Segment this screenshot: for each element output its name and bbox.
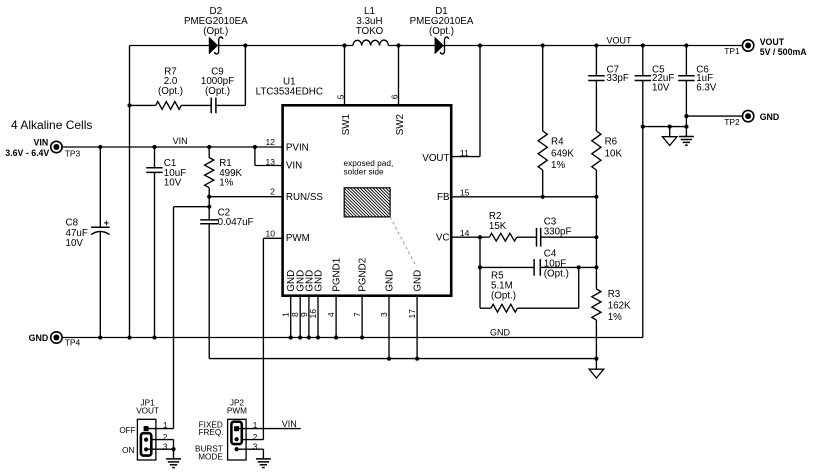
pin JP2-3 <box>235 447 239 451</box>
jumper JP1 shunt <box>141 433 151 455</box>
wire left GND rail vertical <box>129 46 131 338</box>
wire C8 branch <box>99 147 101 338</box>
node rail-C6 junction <box>684 43 688 47</box>
svg-text:FB: FB <box>437 192 450 203</box>
label JP1 <box>136 398 159 415</box>
wire IC bottom ground pins <box>291 297 417 359</box>
net label VOUT <box>607 36 633 46</box>
node R3 ground junction <box>594 357 598 361</box>
wire PVIN stub / pin 13 branch <box>255 147 282 166</box>
svg-text:6.3V: 6.3V <box>696 82 717 93</box>
test point TP4 <box>51 332 62 343</box>
pin name RUN/SS <box>286 192 323 203</box>
svg-text:RUN/SS: RUN/SS <box>286 192 323 203</box>
label R3 <box>608 289 631 323</box>
label R5 <box>491 271 516 302</box>
node VIN-R1 junction <box>207 145 211 149</box>
resistor R2 <box>489 233 517 241</box>
node rail-R4 junction <box>541 43 545 47</box>
svg-text:TOKO: TOKO <box>356 26 384 37</box>
wire R5 row <box>480 267 579 308</box>
svg-text:15: 15 <box>460 188 470 198</box>
svg-text:TP1: TP1 <box>724 46 740 56</box>
svg-text:10V: 10V <box>164 177 182 188</box>
wire SW2 pin 6 <box>398 46 400 105</box>
ground arrow at R3 <box>589 359 604 378</box>
wire JP1 pin3 to ground <box>146 449 173 459</box>
label C8 <box>66 217 88 249</box>
ground earth at JP1 <box>166 459 181 468</box>
capacitor C6 <box>678 76 694 81</box>
test point TP3 <box>51 141 62 152</box>
label TP1 VOUT <box>724 37 807 57</box>
svg-text:0.047uF: 0.047uF <box>218 217 254 228</box>
connector JP1 body <box>137 419 156 460</box>
svg-text:15K: 15K <box>489 221 507 232</box>
wire JP1 pin1 to RUN/SS <box>149 428 174 430</box>
node C4 row right junction <box>594 265 598 269</box>
label L1 <box>356 6 384 37</box>
svg-text:330pF: 330pF <box>544 226 572 237</box>
label OFF <box>119 426 135 435</box>
svg-text:GND: GND <box>490 328 511 338</box>
wire FB pin 15 row <box>452 196 596 198</box>
resistor R4 <box>538 131 547 170</box>
svg-text:10V: 10V <box>652 82 670 93</box>
svg-text:3: 3 <box>253 443 258 452</box>
svg-text:(Opt.): (Opt.) <box>491 291 516 302</box>
svg-text:10K: 10K <box>605 149 623 160</box>
label R4 <box>551 137 574 171</box>
pin number 2 <box>270 186 275 196</box>
svg-text:VIN: VIN <box>34 137 49 147</box>
node JP1 pin3 junction <box>171 447 175 451</box>
resistor R7 <box>156 102 182 110</box>
node agnd pin3 junction <box>387 357 391 361</box>
label C1 <box>164 158 186 188</box>
op-amp U1 LTC3534EDHC box <box>283 105 452 295</box>
svg-text:MODE: MODE <box>198 452 223 461</box>
wire VOUT top rail (SW1 node to TP1) <box>130 45 743 47</box>
pin number 6 <box>389 94 399 99</box>
svg-text:GND: GND <box>413 270 424 292</box>
node bus-C8 junction <box>98 335 102 339</box>
node VC branch junction <box>478 235 482 239</box>
svg-text:1%: 1% <box>551 160 565 171</box>
wire JP2 pin2 <box>242 439 264 441</box>
label BURST MODE <box>195 445 223 462</box>
svg-text:PGND1: PGND1 <box>332 258 343 292</box>
wire R3 bottom lead <box>595 320 597 359</box>
svg-text:1: 1 <box>163 421 168 430</box>
svg-text:13: 13 <box>266 157 276 167</box>
ground arrow at output <box>662 127 677 146</box>
node bus-left rail junction <box>127 335 131 339</box>
pin number 11 <box>460 148 469 158</box>
label TP3 VIN <box>5 137 80 158</box>
label R7 <box>158 66 183 97</box>
wire C4 row <box>480 266 596 268</box>
svg-text:VOUT: VOUT <box>136 406 159 415</box>
pin number 12 <box>266 137 276 147</box>
label D2 <box>184 6 248 37</box>
ground earth at JP2 <box>256 459 271 468</box>
node FB-R4 junction <box>541 195 545 199</box>
dashed leader exposed pad to GND pin <box>390 217 416 266</box>
node ground row C6 junction <box>684 125 688 129</box>
wire VOUT pin 11 riser <box>452 46 480 157</box>
svg-text:SW2: SW2 <box>395 114 406 135</box>
node D1 cathode / VOUT riser junction <box>478 43 482 47</box>
svg-text:2: 2 <box>163 433 168 442</box>
svg-text:TP4: TP4 <box>65 338 81 348</box>
label D1 <box>410 6 474 37</box>
pin name VIN <box>286 160 302 171</box>
svg-text:SW1: SW1 <box>341 114 352 135</box>
capacitor C1 <box>146 168 162 173</box>
pin name FB <box>437 192 450 203</box>
node rail-C5 junction <box>641 43 645 47</box>
svg-text:2: 2 <box>253 433 258 442</box>
label R2 <box>489 211 507 232</box>
label exposed pad text <box>344 158 394 177</box>
wire VIN row <box>62 146 282 148</box>
label ON <box>122 446 134 455</box>
svg-text:PWM: PWM <box>286 233 310 244</box>
node snubber left junction <box>127 103 131 107</box>
node FB-R6 junction <box>594 195 598 199</box>
node RUN/SS junction <box>207 195 211 199</box>
net label VIN <box>173 136 188 146</box>
svg-text:1%: 1% <box>608 312 622 323</box>
label R6 <box>605 137 623 160</box>
pin JP2-1 square <box>234 426 239 431</box>
svg-text:ON: ON <box>122 446 134 455</box>
test point TP1 <box>742 40 753 51</box>
label R1 <box>219 158 242 188</box>
svg-text:5: 5 <box>335 94 345 99</box>
pin number 5 <box>335 94 345 99</box>
svg-text:10V: 10V <box>66 238 84 249</box>
node C4 left junction <box>478 265 482 269</box>
svg-text:VOUT: VOUT <box>607 36 633 46</box>
label TP4 GND <box>29 333 81 348</box>
wire JP2 pin1 VIN <box>239 428 301 430</box>
svg-text:VOUT: VOUT <box>422 153 449 164</box>
svg-text:TP2: TP2 <box>724 117 740 127</box>
svg-text:VIN: VIN <box>286 160 302 171</box>
pin name VC <box>436 233 450 244</box>
wire R1 leads and RUN/SS node <box>209 147 282 220</box>
svg-text:(Opt.): (Opt.) <box>429 26 454 37</box>
pin name PWM <box>286 233 310 244</box>
wire VC to C4/R5 branch <box>479 237 481 308</box>
svg-text:3: 3 <box>163 443 168 452</box>
inductor L1 <box>353 40 389 45</box>
svg-text:GND: GND <box>313 270 324 292</box>
svg-text:17: 17 <box>407 309 417 319</box>
svg-text:162K: 162K <box>608 300 631 311</box>
svg-text:4: 4 <box>326 312 336 317</box>
svg-text:VIN: VIN <box>282 419 297 429</box>
wire C6 column <box>685 46 687 137</box>
svg-text:LTC3534EDHC: LTC3534EDHC <box>256 86 323 97</box>
svg-text:7: 7 <box>352 312 362 317</box>
label C7 <box>607 65 629 85</box>
ground earth at output <box>679 137 694 146</box>
resistor R6 <box>592 131 601 170</box>
svg-text:1: 1 <box>253 421 258 430</box>
wire R4 leads <box>542 46 544 197</box>
svg-text:(Opt.): (Opt.) <box>544 268 569 279</box>
svg-text:3: 3 <box>379 312 389 317</box>
pin names bottom GND/PGND <box>286 258 423 292</box>
svg-text:OFF: OFF <box>119 426 135 435</box>
svg-text:VC: VC <box>436 233 450 244</box>
resistor R1 <box>205 158 214 188</box>
capacitor C3 <box>537 228 541 247</box>
pin name SW1 <box>341 114 352 135</box>
svg-text:GND: GND <box>760 112 780 122</box>
svg-text:1%: 1% <box>219 177 233 188</box>
svg-text:4 Alkaline Cells: 4 Alkaline Cells <box>11 118 92 132</box>
svg-text:VIN: VIN <box>173 136 188 146</box>
svg-text:C8: C8 <box>66 217 79 228</box>
pin JP1-2 <box>144 438 148 442</box>
node C6-TP2 junction <box>684 114 688 118</box>
svg-text:R3: R3 <box>608 289 621 300</box>
node VIN-C1 junction <box>152 145 156 149</box>
svg-text:5V / 500mA: 5V / 500mA <box>760 47 808 57</box>
svg-text:1: 1 <box>281 312 291 317</box>
label C4 <box>544 249 569 280</box>
svg-text:PVIN: PVIN <box>286 142 309 153</box>
node ground row arrow junction <box>668 125 672 129</box>
net label VIN at JP2 <box>282 419 297 429</box>
svg-text:33pF: 33pF <box>607 73 629 84</box>
label C9 <box>201 66 234 97</box>
svg-text:VOUT: VOUT <box>760 37 785 47</box>
node SW2 rail junction <box>396 43 400 47</box>
capacitor C2 <box>200 220 218 224</box>
pin numbers JP1 <box>163 421 168 451</box>
net label GND <box>490 328 511 338</box>
wire PWM pin 10 to JP2 <box>263 238 281 439</box>
svg-text:649K: 649K <box>551 149 574 160</box>
svg-text:14: 14 <box>460 228 470 238</box>
svg-text:2: 2 <box>270 186 275 196</box>
svg-text:(Opt.): (Opt.) <box>205 86 230 97</box>
pin name PVIN <box>286 142 309 153</box>
capacitor C9 <box>211 98 216 114</box>
wire JP1 pin2 <box>151 440 173 450</box>
wire JP1 feed <box>174 207 210 429</box>
pin number 14 <box>460 228 470 238</box>
svg-text:(Opt.): (Opt.) <box>203 26 228 37</box>
svg-text:GND: GND <box>384 270 395 292</box>
label C6 <box>696 65 717 94</box>
wire GND bus <box>62 337 643 339</box>
wire FB column to R3 <box>595 197 597 289</box>
svg-text:R4: R4 <box>551 137 564 148</box>
node SW1 rail junction <box>342 43 346 47</box>
wire snubber row <box>130 46 246 106</box>
svg-text:(Opt.): (Opt.) <box>158 86 183 97</box>
label C2 <box>218 208 254 229</box>
svg-text:6: 6 <box>389 94 399 99</box>
svg-text:16: 16 <box>308 309 318 319</box>
pin JP2-2 <box>235 437 239 441</box>
pin JP1-3 <box>144 447 148 451</box>
wire C1 branch <box>154 147 156 338</box>
pin numbers bottom <box>281 309 417 319</box>
jumper JP2 shunt <box>231 422 241 444</box>
label 4 Alkaline Cells <box>11 118 92 132</box>
pin number 10 <box>266 229 276 239</box>
node SW1-snubber junction <box>243 43 247 47</box>
resistor R3 <box>592 289 601 320</box>
pin name VOUT <box>422 153 449 164</box>
pin JP1-1 square <box>144 426 149 431</box>
svg-text:10: 10 <box>266 229 276 239</box>
connector JP2 body <box>228 419 247 460</box>
wire output ground row <box>643 126 687 128</box>
pin name SW2 <box>395 114 406 135</box>
wire JP2 pin3 to ground <box>239 449 264 459</box>
svg-text:3.6V - 6.4V: 3.6V - 6.4V <box>5 148 49 158</box>
svg-text:11: 11 <box>460 148 469 158</box>
node C4-R5 right junction <box>577 265 581 269</box>
capacitor C7 <box>588 76 604 81</box>
label FIXED FREQ <box>198 420 223 437</box>
svg-text:TP3: TP3 <box>65 148 81 158</box>
node bus pin junctions <box>289 335 365 339</box>
wire VC pin 14 row <box>452 236 596 238</box>
diode D1 <box>435 37 449 54</box>
wire C2 bottom lead <box>208 224 210 359</box>
node JP1 branch junction <box>207 205 211 209</box>
test point TP2 <box>742 110 753 121</box>
node C3 right junction <box>594 235 598 239</box>
wire analog ground row <box>209 358 596 360</box>
svg-text:solder side: solder side <box>344 166 385 176</box>
capacitor C5 <box>635 76 651 81</box>
node ground row C5 junction <box>641 125 645 129</box>
pin numbers JP2 <box>253 421 258 451</box>
wire C5 column <box>642 46 644 338</box>
exposed pad <box>315 188 418 217</box>
diode D2 <box>209 37 223 54</box>
svg-text:R6: R6 <box>605 137 618 148</box>
resistor R5 <box>491 304 518 312</box>
svg-text:PGND2: PGND2 <box>358 258 369 292</box>
node agnd pin17 junction <box>415 357 419 361</box>
svg-text:GND: GND <box>29 333 49 343</box>
label JP2 <box>227 398 247 415</box>
pin number 13 <box>266 157 276 167</box>
label C5 <box>652 65 674 94</box>
svg-text:12: 12 <box>266 137 276 147</box>
node rail-C7 junction <box>594 43 598 47</box>
pin number 15 <box>460 188 470 198</box>
capacitor C4 <box>534 259 540 276</box>
capacitor C8 (polarized) <box>91 221 110 235</box>
label C3 <box>544 216 572 237</box>
svg-text:PWM: PWM <box>227 406 247 415</box>
node VIN-C8 junction <box>98 145 102 149</box>
node bus-C1 junction <box>152 335 156 339</box>
wire TP2 row <box>686 115 742 117</box>
label U1 <box>256 76 323 97</box>
node VIN-pin13 junction <box>253 145 257 149</box>
label TP2 GND <box>724 112 779 127</box>
svg-text:FREQ.: FREQ. <box>198 428 223 437</box>
wire SW1 pin 5 <box>344 46 346 105</box>
wire C7/R6 leads <box>595 46 597 197</box>
